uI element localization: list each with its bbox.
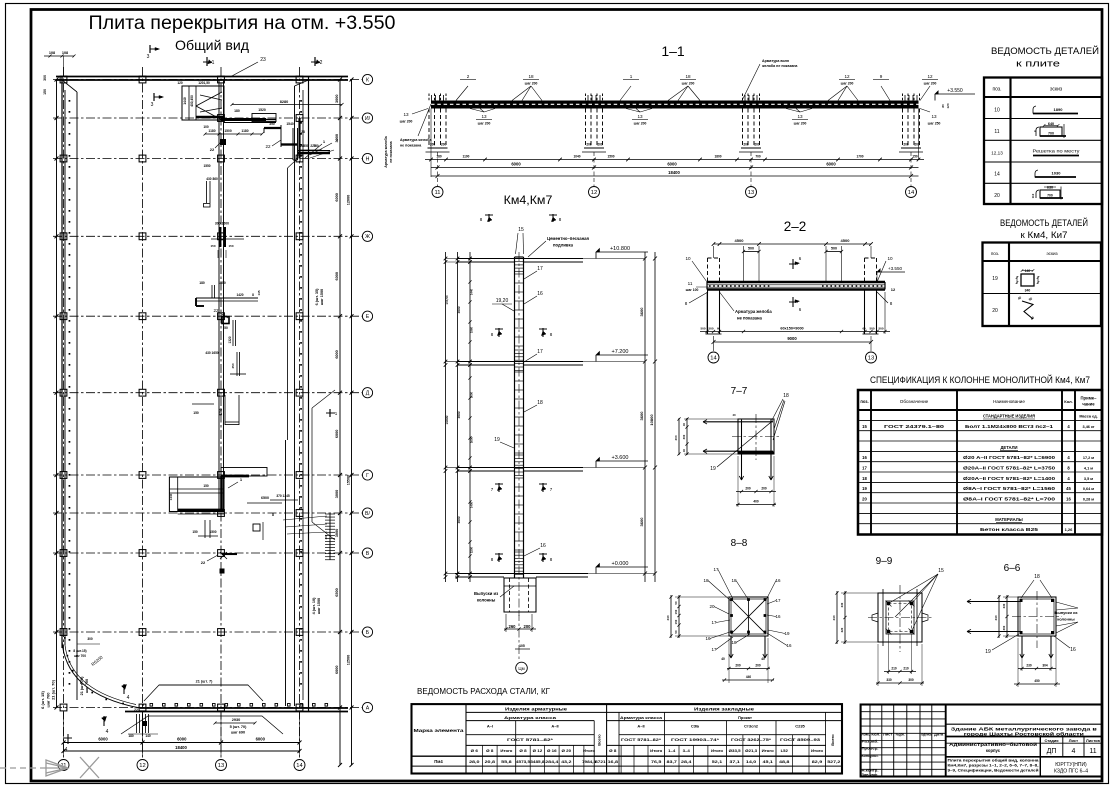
grid number bubbles bottom <box>58 760 69 771</box>
svg-text:14: 14 <box>994 172 1000 178</box>
svg-text:55,8: 55,8 <box>501 760 511 764</box>
svg-text:150: 150 <box>192 530 198 534</box>
svg-text:9–9: 9–9 <box>876 556 893 567</box>
svg-text:3600: 3600 <box>457 411 461 418</box>
svg-text:12: 12 <box>927 74 933 79</box>
svg-text:1030: 1030 <box>1052 171 1062 176</box>
section 1-1 dim chain 1 <box>425 159 924 161</box>
svg-text:28: 28 <box>300 144 304 148</box>
svg-text:13: 13 <box>481 114 487 119</box>
svg-text:15: 15 <box>862 424 867 429</box>
svg-text:А: А <box>366 705 370 711</box>
svg-text:3,5 м: 3,5 м <box>1084 477 1093 481</box>
section 1-1 dim total 18400 <box>431 175 919 177</box>
marker 4 markers bottom-left <box>103 716 105 726</box>
svg-text:150: 150 <box>203 484 209 488</box>
bottom dim witness lines <box>63 712 65 755</box>
section 2-2 total dim <box>714 341 872 343</box>
svg-text:колонны: колонны <box>1057 617 1075 622</box>
svg-text:80: 80 <box>941 104 945 108</box>
svg-text:304: 304 <box>1042 664 1048 668</box>
cluster C5 below Г <box>178 513 224 515</box>
svg-text:15: 15 <box>518 227 524 233</box>
svg-text:Арматура желоба: Арматура желоба <box>400 138 432 142</box>
svg-text:200: 200 <box>755 664 761 668</box>
svg-text:3600: 3600 <box>639 517 644 527</box>
svg-text:Арматура желоба: Арматура желоба <box>735 309 772 314</box>
svg-text:1520: 1520 <box>258 108 266 112</box>
svg-text:3600: 3600 <box>457 516 461 523</box>
svg-text:8: 8 <box>685 301 688 306</box>
svg-text:100: 100 <box>203 125 209 129</box>
svg-text:Стадия: Стадия <box>1044 738 1058 743</box>
svg-text:12000: 12000 <box>347 195 351 206</box>
svg-text:2200: 2200 <box>470 546 474 553</box>
svg-text:14: 14 <box>296 763 303 769</box>
svg-text:19: 19 <box>862 486 867 491</box>
svg-text:13: 13 <box>868 356 874 362</box>
svg-text:16: 16 <box>1070 647 1076 653</box>
svg-text:527,2: 527,2 <box>827 760 840 764</box>
svg-text:Наименование: Наименование <box>993 399 1025 404</box>
svg-text:2600: 2600 <box>470 436 474 443</box>
svg-text:шаг 200: шаг 200 <box>400 120 413 124</box>
cluster near axis Н right <box>300 149 322 151</box>
svg-text:Бетон класса В25: Бетон класса В25 <box>980 527 1039 532</box>
svg-text:3485,8: 3485,8 <box>530 760 544 764</box>
svg-text:18400: 18400 <box>175 745 187 750</box>
svg-text:22: 22 <box>265 144 271 149</box>
svg-text:200: 200 <box>441 143 447 147</box>
svg-text:19: 19 <box>985 649 991 655</box>
trapezoid note below axis A <box>121 716 283 734</box>
svg-text:Выпуски из: Выпуски из <box>474 591 498 596</box>
svg-text:550: 550 <box>303 144 309 148</box>
svg-text:40: 40 <box>761 657 765 661</box>
svg-text:18: 18 <box>1034 574 1040 580</box>
svg-text:шаг 250: шаг 250 <box>928 122 941 126</box>
svg-text:6000: 6000 <box>335 666 339 674</box>
svg-text:18: 18 <box>783 393 789 399</box>
svg-text:чание: чание <box>1082 402 1095 407</box>
svg-text:18: 18 <box>528 74 534 79</box>
svg-text:Ж: Ж <box>365 234 370 240</box>
svg-text:0,28 м: 0,28 м <box>1083 497 1094 501</box>
svg-text:3–4: 3–4 <box>683 749 690 753</box>
cluster C6 near axis Е <box>196 297 258 299</box>
beam cluster C4 at axis Г <box>221 468 267 477</box>
svg-text:ГОСТ 19903–74*: ГОСТ 19903–74* <box>671 737 720 742</box>
svg-text:2–2: 2–2 <box>784 219 807 234</box>
svg-text:500: 500 <box>748 247 754 251</box>
svg-text:450: 450 <box>1034 679 1040 683</box>
svg-text:0,64 м: 0,64 м <box>1083 487 1094 491</box>
trapezoid note above axis A <box>144 685 263 701</box>
svg-text:10: 10 <box>685 256 691 261</box>
svg-text:ДП: ДП <box>1047 748 1057 755</box>
svg-text:15500: 15500 <box>347 475 351 486</box>
svg-text:430 860: 430 860 <box>206 177 218 181</box>
svg-text:1860: 1860 <box>470 326 474 333</box>
svg-text:Ø20А–II ГОСТ 5781–82* L=3750: Ø20А–II ГОСТ 5781–82* L=3750 <box>963 466 1056 471</box>
svg-text:Разраб.: Разраб. <box>862 740 879 744</box>
svg-text:Итого: Итого <box>762 749 774 753</box>
svg-text:11: 11 <box>1089 748 1096 755</box>
svg-text:110: 110 <box>1031 193 1035 198</box>
section 1-1 columns <box>428 109 430 149</box>
svg-text:8–8: 8–8 <box>731 538 748 549</box>
svg-text:ГОСТ 24379.1–80: ГОСТ 24379.1–80 <box>884 424 945 429</box>
dims 1180 1500 1180 <box>205 133 262 135</box>
svg-text:1550: 1550 <box>203 164 210 168</box>
svg-text:180: 180 <box>199 281 205 285</box>
svg-text:1800: 1800 <box>714 155 721 159</box>
svg-text:Листов: Листов <box>1086 738 1101 743</box>
svg-text:2: 2 <box>467 74 470 79</box>
svg-text:Ст3сп2: Ст3сп2 <box>744 724 759 729</box>
svg-text:6000: 6000 <box>335 272 339 280</box>
svg-text:6000: 6000 <box>177 737 187 742</box>
beam bar at axis 14 top <box>298 152 330 155</box>
svg-text:МАТЕРИАЛЫ: МАТЕРИАЛЫ <box>995 517 1023 522</box>
svg-text:6000: 6000 <box>826 162 836 167</box>
svg-text:ГОСТ 5781–82*: ГОСТ 5781–82* <box>507 737 554 742</box>
svg-text:10800: 10800 <box>445 415 449 424</box>
svg-text:440: 440 <box>832 615 836 620</box>
svg-text:1540: 1540 <box>286 122 294 126</box>
svg-text:16,8: 16,8 <box>608 760 618 764</box>
svg-text:+0.000: +0.000 <box>612 561 629 567</box>
svg-text:500: 500 <box>878 327 883 331</box>
ladder dimension ticks right side <box>329 514 331 560</box>
section 6-6 column square <box>1018 597 1056 636</box>
leaders to ladder <box>283 516 327 520</box>
svg-text:желоба не показана: желоба не показана <box>761 64 798 68</box>
table vedomost detaley k Km4 - frame <box>983 243 1102 327</box>
svg-text:19,20: 19,20 <box>496 298 509 304</box>
svg-text:Кол.: Кол. <box>1064 399 1072 404</box>
svg-text:20: 20 <box>862 496 867 501</box>
svg-text:100,50: 100,50 <box>445 295 449 305</box>
svg-text:4573,5: 4573,5 <box>516 760 530 764</box>
svg-text:630: 630 <box>1047 186 1053 190</box>
svg-text:Ø20 А–II ГОСТ 5781–82* L=6900: Ø20 А–II ГОСТ 5781–82* L=6900 <box>963 455 1056 460</box>
svg-text:6000: 6000 <box>667 162 677 167</box>
svg-text:Изм.: Изм. <box>861 732 870 736</box>
svg-text:Арматура волн: Арматура волн <box>762 59 789 63</box>
section 1-1 slab end witness lines <box>430 109 432 178</box>
stamp right verticals <box>1040 736 1102 738</box>
svg-text:13: 13 <box>403 112 409 117</box>
svg-text:8: 8 <box>272 513 274 517</box>
svg-text:Дата: Дата <box>934 732 943 736</box>
section 1-1 dim chain 6000 <box>431 167 919 169</box>
thick beam under axis М <box>221 118 266 121</box>
svg-text:шаг 200: шаг 200 <box>682 82 695 86</box>
svg-text:200: 200 <box>903 143 909 147</box>
svg-text:А–II: А–II <box>551 724 558 729</box>
svg-text:ГОСТ 5781–82*: ГОСТ 5781–82* <box>621 737 662 742</box>
svg-text:1500: 1500 <box>607 155 614 159</box>
section 7-7 centerlines <box>755 414 757 460</box>
svg-text:400: 400 <box>674 435 678 440</box>
svg-text:200: 200 <box>597 143 603 147</box>
svg-text:210: 210 <box>903 667 909 671</box>
svg-text:Приме–: Приме– <box>1081 396 1098 401</box>
opening edge double line along axis 13 <box>218 80 220 511</box>
svg-text:Ø 16: Ø 16 <box>547 749 557 753</box>
section 1-1 slab band <box>431 101 919 109</box>
svg-text:3600: 3600 <box>639 411 644 421</box>
svg-text:180: 180 <box>234 109 240 113</box>
stamp left grid verticals <box>869 705 871 777</box>
section 9-9 inner dashed plate <box>886 601 914 634</box>
svg-text:150: 150 <box>674 619 678 624</box>
svg-text:шаг 1500: шаг 1500 <box>317 598 321 614</box>
grey copier arrow artifact <box>0 760 68 776</box>
svg-text:Итого: Итого <box>711 749 723 753</box>
svg-text:Лист: Лист <box>883 732 893 736</box>
svg-text:к Км4, Ки7: к Км4, Ки7 <box>1021 230 1068 240</box>
marker 1 right mid <box>329 409 331 417</box>
svg-text:шаг 100: шаг 100 <box>686 288 699 292</box>
section 2-2 view markers B <box>792 259 794 269</box>
svg-text:Н: Н <box>366 156 370 162</box>
svg-text:50: 50 <box>224 326 228 330</box>
svg-text:Изделия арматурные: Изделия арматурные <box>505 707 568 712</box>
svg-text:300: 300 <box>682 434 686 439</box>
svg-text:шаг 690: шаг 690 <box>231 731 245 735</box>
svg-text:21 (шт. 70): 21 (шт. 70) <box>51 679 56 700</box>
svg-text:10: 10 <box>887 256 893 261</box>
svg-text:16: 16 <box>775 614 781 619</box>
svg-text:700: 700 <box>1048 131 1054 135</box>
svg-text:Провер.: Провер. <box>862 747 879 751</box>
section 7-7 column square <box>738 419 774 454</box>
svg-text:37,1: 37,1 <box>729 760 739 764</box>
section 6-6 bars below <box>1021 636 1023 658</box>
svg-text:260: 260 <box>509 624 517 629</box>
svg-text:1: 1 <box>212 60 215 66</box>
svg-text:22: 22 <box>210 147 215 152</box>
svg-text:300: 300 <box>43 75 47 81</box>
svg-text:48,8: 48,8 <box>779 760 789 764</box>
svg-text:Ø8А–I ГОСТ 5781–82* L=1560: Ø8А–I ГОСТ 5781–82* L=1560 <box>963 486 1056 491</box>
svg-text:28: 28 <box>301 130 305 134</box>
svg-text:16: 16 <box>537 291 543 297</box>
svg-text:Ø 12: Ø 12 <box>533 749 543 753</box>
svg-text:поз.: поз. <box>991 251 999 256</box>
svg-text:4,1 м: 4,1 м <box>1084 467 1093 471</box>
svg-text:Марка элемента: Марка элемента <box>414 728 465 733</box>
bubble Cm <box>518 612 520 659</box>
svg-text:не показана: не показана <box>389 140 393 162</box>
svg-text:Зав.каф.: Зав.каф. <box>862 773 879 777</box>
svg-text:колонны: колонны <box>477 598 496 603</box>
svg-text:12,13: 12,13 <box>991 151 1003 156</box>
ground line at 0.000 <box>455 573 588 575</box>
svg-text:СЗБ: СЗБ <box>691 724 699 729</box>
svg-text:ГОСТ 8509–93: ГОСТ 8509–93 <box>780 738 820 742</box>
svg-text:12500: 12500 <box>347 655 351 666</box>
svg-text:1440: 1440 <box>470 288 474 295</box>
svg-text:9: 9 <box>880 74 883 79</box>
svg-text:8721: 8721 <box>595 760 605 764</box>
svg-text:14: 14 <box>710 356 717 362</box>
svg-text:330: 330 <box>886 678 892 682</box>
section 2-2 columns <box>707 258 709 282</box>
section 9-9 column outline <box>878 593 922 642</box>
svg-text:8280: 8280 <box>280 100 288 104</box>
svg-text:20: 20 <box>992 308 998 314</box>
svg-text:17: 17 <box>537 349 543 355</box>
svg-text:1–1: 1–1 <box>661 43 685 59</box>
svg-text:Ø 8: Ø 8 <box>486 749 493 753</box>
svg-text:Кол.: Кол. <box>871 732 880 736</box>
svg-text:Общий вид: Общий вид <box>175 38 249 53</box>
svg-text:8: 8 <box>890 301 893 306</box>
svg-text:105: 105 <box>519 644 525 648</box>
svg-text:КЗДО ПГС 6–4: КЗДО ПГС 6–4 <box>1054 769 1088 775</box>
svg-text:шаг 200: шаг 200 <box>924 82 937 86</box>
svg-text:1040: 1040 <box>573 155 580 159</box>
svg-text:7–7: 7–7 <box>731 386 748 397</box>
section 7-7 horizontal bars <box>703 421 773 423</box>
svg-text:Итого: Итого <box>811 749 823 753</box>
svg-text:И/: И/ <box>365 116 371 122</box>
svg-text:Плита перекрытия на отм. +3.55: Плита перекрытия на отм. +3.550 <box>89 12 396 34</box>
svg-text:300: 300 <box>87 637 93 641</box>
section marker 1 top <box>206 57 208 66</box>
svg-text:1201,50: 1201,50 <box>198 81 210 85</box>
svg-text:№док.: №док. <box>896 732 905 736</box>
section 8-8 diagonals <box>732 600 766 634</box>
section 2-2 grid bubbles <box>708 352 719 363</box>
svg-text:шаг 200: шаг 200 <box>841 82 854 86</box>
svg-text:Ø33,5: Ø33,5 <box>729 749 741 753</box>
svg-text:Е: Е <box>366 314 370 320</box>
svg-text:ГОСТ 3262–75*: ГОСТ 3262–75* <box>731 738 772 742</box>
svg-text:к плите: к плите <box>1016 59 1060 69</box>
svg-text:220: 220 <box>310 144 316 148</box>
svg-text:13: 13 <box>637 114 643 119</box>
right dimension chains <box>339 80 341 766</box>
svg-text:Км4,Км7: Км4,Км7 <box>504 193 553 207</box>
section 8-8 corner bars <box>730 598 733 601</box>
svg-text:11: 11 <box>434 190 440 196</box>
svg-text:Консульт.: Консульт. <box>862 754 879 758</box>
witness trapezoid right mid <box>312 390 335 408</box>
svg-text:ДЕТАЛИ: ДЕТАЛИ <box>1000 445 1017 450</box>
svg-text:83,7: 83,7 <box>667 760 677 764</box>
svg-text:6–6: 6–6 <box>1004 563 1021 574</box>
section 6-6 horizontal bars <box>967 601 1020 603</box>
svg-text:210: 210 <box>891 667 897 671</box>
svg-text:1400: 1400 <box>470 501 474 508</box>
svg-text:1800: 1800 <box>218 281 226 285</box>
right dimension lines of column <box>644 252 646 582</box>
svg-text:Ø 8: Ø 8 <box>609 749 616 753</box>
svg-text:400,450: 400,450 <box>190 95 194 107</box>
svg-text:230: 230 <box>840 602 844 607</box>
svg-text:ВЕДОМОСТЬ ДЕТАЛЕЙ: ВЕДОМОСТЬ ДЕТАЛЕЙ <box>991 45 1099 57</box>
svg-text:2930: 2930 <box>232 718 240 722</box>
svg-text:6000: 6000 <box>511 162 521 167</box>
svg-text:Арматура класса: Арматура класса <box>620 715 663 720</box>
section marker 3 top-left <box>149 45 151 53</box>
section 9-9 anchor bolts <box>887 602 890 605</box>
svg-text:60: 60 <box>862 327 866 331</box>
svg-text:14,0: 14,0 <box>746 760 756 764</box>
svg-text:16: 16 <box>775 578 781 583</box>
svg-text:6 (шт. 15): 6 (шт. 15) <box>40 691 45 709</box>
bottom-left curved wall R6200 <box>62 641 140 708</box>
svg-text:В/: В/ <box>365 511 370 517</box>
svg-text:11: 11 <box>688 281 693 286</box>
svg-text:284,4: 284,4 <box>545 760 558 764</box>
svg-text:150: 150 <box>43 89 47 95</box>
plan top edge double line <box>56 76 348 78</box>
svg-text:5 (шт. 70): 5 (шт. 70) <box>230 725 247 729</box>
svg-text:40: 40 <box>721 657 725 661</box>
right wall strip <box>294 86 296 706</box>
svg-text:Итого: Итого <box>583 749 595 753</box>
svg-text:+10.800: +10.800 <box>610 246 630 252</box>
svg-text:60: 60 <box>717 327 721 331</box>
svg-text:ВЕДОМОСТЬ ДЕТАЛЕЙ: ВЕДОМОСТЬ ДЕТАЛЕЙ <box>1000 217 1088 229</box>
svg-text:1890: 1890 <box>1054 107 1064 112</box>
section 6-6 centerlines <box>1012 616 1062 618</box>
svg-text:Ø 8: Ø 8 <box>519 749 526 753</box>
svg-text:300: 300 <box>1002 625 1006 630</box>
section 6-6 corner bars <box>1020 599 1023 602</box>
svg-text:В: В <box>366 551 370 557</box>
section 7-7 vertical bars <box>741 420 743 480</box>
svg-text:150: 150 <box>912 155 918 159</box>
svg-text:Выпуски из: Выпуски из <box>1054 610 1077 615</box>
section 6-6 dims <box>1018 668 1056 670</box>
svg-text:не показана: не показана <box>400 144 422 148</box>
svg-text:340: 340 <box>1025 289 1031 293</box>
svg-text:18: 18 <box>862 476 867 481</box>
steel table verticals <box>465 704 467 773</box>
view markers 8 top <box>488 214 490 222</box>
svg-text:Ø8А–I ГОСТ 5781–82* L=700: Ø8А–I ГОСТ 5781–82* L=700 <box>963 496 1056 501</box>
svg-text:13: 13 <box>797 114 803 119</box>
svg-text:440: 440 <box>994 615 998 620</box>
svg-text:19: 19 <box>710 466 716 472</box>
svg-text:Ø 6: Ø 6 <box>471 749 478 753</box>
svg-text:4: 4 <box>1071 748 1075 755</box>
svg-text:14: 14 <box>908 190 915 196</box>
svg-text:8 (шт.15): 8 (шт.15) <box>73 649 86 653</box>
svg-text:Изделия закладные: Изделия закладные <box>694 707 755 712</box>
svg-text:450: 450 <box>231 363 235 368</box>
svg-text:3000: 3000 <box>335 490 339 498</box>
title block stamp frame <box>861 705 1102 777</box>
plan bottom edge double line <box>140 707 348 709</box>
section 7-7 dims <box>686 418 688 455</box>
svg-text:12: 12 <box>591 190 597 196</box>
svg-text:6000: 6000 <box>335 193 339 201</box>
section 2-2 slab <box>707 281 885 284</box>
svg-text:20,8: 20,8 <box>485 760 495 764</box>
thick wall edge near axis 14 top <box>298 118 300 159</box>
grey X artifact <box>80 757 99 778</box>
svg-text:16: 16 <box>786 643 792 648</box>
svg-text:16: 16 <box>862 455 867 460</box>
svg-text:4: 4 <box>65 747 68 753</box>
